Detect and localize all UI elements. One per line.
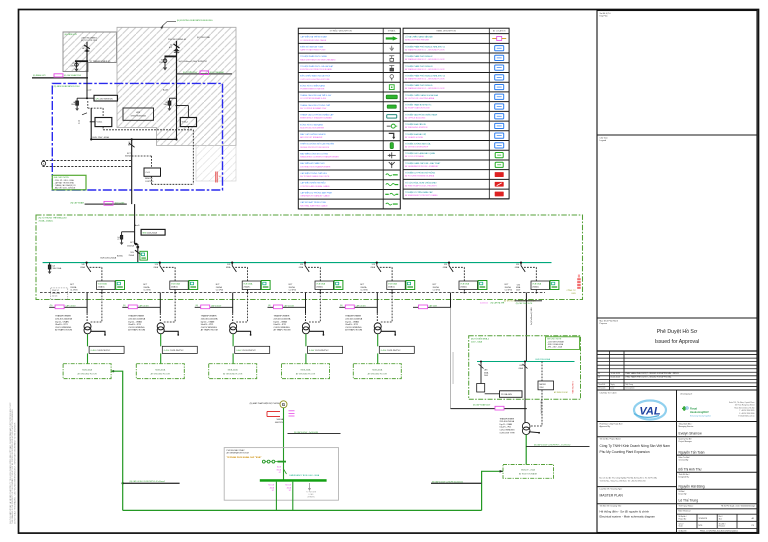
feeder F1 breaker cluster: [70, 262, 124, 294]
bus stub A (thick): [75, 60, 88, 62]
svg-text:AuxD: AuxD: [135, 224, 140, 227]
svg-text:(E) RANH GIỚI: (E) RANH GIỚI: [33, 74, 46, 77]
svg-text:AT2: AT2: [169, 46, 172, 49]
existing 22kV line to right: [177, 73, 232, 75]
svg-text:CONTROL: CONTROL: [145, 181, 154, 183]
svg-text:HaskoningDHV: HaskoningDHV: [690, 410, 709, 414]
wire: incoming A drop: [86, 42, 88, 61]
svg-text:LV COPPER BUSBAR 0.4kV: LV COPPER BUSBAR 0.4kV: [300, 97, 326, 100]
dashed link under L2: [102, 127, 104, 130]
svg-text:Electrical system - Main schem: Electrical system - Main schematic diagr…: [600, 515, 656, 519]
svg-text:CÁP 24kV: CÁP 24kV: [429, 305, 438, 308]
svg-text:CU/CU WINDING: CU/CU WINDING: [500, 430, 515, 432]
svg-text:SURGE PROTECTION DEVICE: SURGE PROTECTION DEVICE: [300, 147, 329, 149]
svg-text:500kVA: 500kVA: [277, 418, 284, 421]
svg-text:(N) MÁY PHÁT ĐIỆN DỰ PHÒNG: (N) MÁY PHÁT ĐIỆN DỰ PHÒNG: [250, 402, 281, 405]
svg-text:Revision:: Revision:: [719, 526, 726, 528]
svg-text:TỦ ĐIỆN CHIẾU SÁNG NGOÀI NHÀ: TỦ ĐIỆN CHIẾU SÁNG NGOÀI NHÀ: [405, 94, 438, 97]
future spare arrow: [309, 483, 311, 489]
transformer T5 feeder: [339, 290, 414, 379]
legend row R6: [403, 91, 509, 93]
legend row R17: [403, 198, 509, 200]
svg-text:Địa Chỉ Dự Án: Khu Công Nghiệp: Địa Chỉ Dự Án: Khu Công Nghiệp Phú Mỹ, Đ…: [600, 477, 658, 480]
svg-text:TỦ ĐIỆN PHÂN PHỐI CHÍNH: TỦ ĐIỆN PHÂN PHỐI CHÍNH: [300, 55, 327, 58]
svg-text:22kV - 630A: 22kV - 630A: [471, 340, 483, 343]
svg-text:AT EMERGENCY PRIORITY PANEL: AT EMERGENCY PRIORITY PANEL: [405, 194, 439, 197]
ground B: [163, 67, 167, 70]
svg-text:VT: VT: [117, 239, 119, 241]
ground A: [74, 69, 78, 72]
svg-text:PANEL DESCRIPTION: PANEL DESCRIPTION: [436, 30, 456, 33]
svg-text:MSB 22kV-2500A: MSB 22kV-2500A: [143, 231, 158, 234]
svg-text:(E) 22kV LINE: (E) 22kV LINE: [197, 37, 210, 39]
svg-text:Key Plan: Key Plan: [600, 16, 608, 18]
svg-text:(N) CÁP 0.6/1kV CU/XLPE/PVC -: (N) CÁP 0.6/1kV CU/XLPE/PVC - 4Cx95mm2: [534, 444, 570, 447]
svg-text:M1: M1: [128, 145, 131, 147]
svg-text:Designed By:: Designed By:: [679, 477, 690, 479]
svg-text:SAFETY EARTHING POINT: SAFETY EARTHING POINT: [300, 49, 326, 52]
svg-text:AT RMU ROOM: AT RMU ROOM: [554, 391, 568, 394]
metering note block: [51, 288, 68, 299]
surge arrester R: [170, 97, 177, 99]
svg-text:Ngày: Ngày: [611, 384, 615, 386]
legend row R16: [403, 188, 509, 190]
svg-text:AT WAREHOUSE NO.4 - GROUND FLO: AT WAREHOUSE NO.4 - GROUND FLOOR: [405, 77, 445, 80]
svg-text:Purpose: Purpose: [600, 323, 608, 325]
feeder F2 breaker cluster: [143, 262, 197, 294]
svg-text:TO TRANSFORMER (E): TO TRANSFORMER (E): [90, 60, 111, 63]
wire: ESB drop 2: [292, 482, 294, 511]
svg-text:AT LOCATION: AT LOCATION: [493, 30, 506, 33]
interconnect to MSB-2 transformer: [451, 408, 527, 410]
wire: MDB-09 to emergency network: [482, 471, 503, 510]
svg-text:TỦ ĐIỆN PHÂN PHỐI MDB-04 NHÀ K: TỦ ĐIỆN PHÂN PHỐI MDB-04 NHÀ KHO 04: [405, 74, 446, 77]
svg-text:- RMU 3 NGĂN 630A: - RMU 3 NGĂN 630A: [547, 343, 564, 346]
logos row: [597, 389, 757, 391]
transformer T1 feeder: [49, 290, 124, 379]
svg-text:AT WAREHOUSE NO.5 - GROUND FLO: AT WAREHOUSE NO.5 - GROUND FLOOR: [405, 87, 445, 90]
svg-text:05.05.2023: 05.05.2023: [611, 377, 620, 379]
svg-text:(N) CÁP NGẦM: (N) CÁP NGẦM: [71, 201, 85, 204]
svg-text:AT FIRE PUMP ROOM - PRIORITY: AT FIRE PUMP ROOM - PRIORITY: [405, 184, 437, 187]
svg-text:12.06.2023: 12.06.2023: [611, 373, 620, 375]
MSB-2 metering dashed: [541, 362, 543, 382]
legend section: [597, 317, 757, 319]
feeder F5 breaker cluster: [360, 262, 414, 294]
svg-text:SYNCHRONIZING: SYNCHRONIZING: [131, 115, 147, 117]
svg-text:CÁP ĐIỆN TRUNG THẾ 24kV: CÁP ĐIỆN TRUNG THẾ 24kV: [300, 172, 327, 175]
svg-text:AT FUTURE EXPANSION AREA: AT FUTURE EXPANSION AREA: [405, 175, 435, 178]
PT branch at MSB incoming: [122, 231, 135, 233]
svg-text:PHÁT HÀNH PHÊ DUYỆT - ISSUED F: PHÁT HÀNH PHÊ DUYỆT - ISSUED FOR APPROVA…: [626, 372, 680, 375]
svg-text:(N) CÁP 0.6/1kV - 2x(4Cx240): (N) CÁP 0.6/1kV - 2x(4Cx240): [294, 431, 319, 434]
legend row R12: [403, 149, 509, 151]
existing area B (hatched): [117, 27, 236, 145]
ground R: [168, 108, 172, 111]
svg-text:Tình Trạng / Status:: Tình Trạng / Status:: [679, 504, 694, 507]
legend row L16: [298, 188, 400, 190]
svg-text:E info@rhdhv.com.vn: E info@rhdhv.com.vn: [738, 415, 754, 418]
svg-text:2500A: 2500A: [129, 254, 135, 257]
approval row: [597, 421, 757, 423]
svg-text:(N) CÁP 24kV XLPE: (N) CÁP 24kV XLPE: [516, 302, 533, 305]
cable label on emergency riser (left): [122, 482, 180, 484]
svg-text:(N) TỦ ĐIỆN MSB-2: (N) TỦ ĐIỆN MSB-2: [471, 337, 490, 340]
svg-text:Phải Được Chấp Thuận Bởi /: Phải Được Chấp Thuận Bởi /: [600, 422, 624, 425]
svg-text:Loại Bản Vẽ / Drawing Type:: Loại Bản Vẽ / Drawing Type:: [600, 488, 623, 491]
svg-text:MCCB: MCCB: [268, 485, 274, 487]
legend row R4: [403, 71, 509, 73]
legend row L1: [298, 42, 400, 44]
generator G1: [280, 401, 287, 408]
wire: MSB-2 to transformer T6: [524, 399, 526, 422]
svg-text:Hồ Sơ Phê Duyệt - Draft / 2500: Hồ Sơ Phê Duyệt - Draft / 25000000mDesig…: [721, 504, 755, 507]
feeder F4 breaker cluster: [289, 262, 343, 294]
wire: from area A into switchboard: [86, 77, 88, 98]
svg-text:Issued for Approval: Issued for Approval: [655, 339, 699, 345]
svg-text:PHÁT HÀNH PHÊ DUYỆT - ISSUED F: PHÁT HÀNH PHÊ DUYỆT - ISSUED FOR APPROVA…: [626, 376, 672, 379]
svg-text:AT PUMP STATION ROOM: AT PUMP STATION ROOM: [405, 107, 430, 110]
wire: box L2 to feeder: [90, 121, 95, 123]
svg-text:OUTDOOR LIGHTING FIXTURE: OUTDOOR LIGHTING FIXTURE: [300, 79, 330, 81]
svg-text:Đỗ Thị Anh Thư: Đỗ Thị Anh Thư: [679, 466, 703, 471]
breaker 52G main: [135, 250, 141, 254]
legend row L14: [298, 169, 400, 171]
bus: dashed control bus: [40, 292, 545, 294]
svg-text:Kiểm Tra Bởi /: Kiểm Tra Bởi /: [679, 456, 691, 459]
wire: center feeder in blue box: [131, 139, 133, 204]
svg-text:(N) NEW SUBSTATION 22kV: (N) NEW SUBSTATION 22kV: [54, 85, 81, 88]
svg-text:AT WAREHOUSE NO.1 - GROUND FLO: AT WAREHOUSE NO.1 - GROUND FLOOR: [405, 48, 445, 51]
cable tag B (magenta): [200, 71, 209, 75]
svg-text:3x(1Cx50) 24kV: 3x(1Cx50) 24kV: [541, 399, 543, 413]
svg-text:AT WAREHOUSE NO.3 - GROUND FLO: AT WAREHOUSE NO.3 - GROUND FLOOR: [405, 68, 445, 71]
svg-text:NEUTRAL EARTHING CABLE: NEUTRAL EARTHING CABLE: [300, 204, 328, 207]
info grid: [677, 503, 758, 505]
svg-text:MDB-09 - 250A: MDB-09 - 250A: [521, 468, 535, 471]
svg-text:- 22kV SWITCHGEAR: - 22kV SWITCHGEAR: [547, 340, 565, 343]
svg-text:AT GENERATOR ROOM - STANDBY: AT GENERATOR ROOM - STANDBY: [405, 165, 439, 168]
svg-text:Nguyễn Hải Đăng: Nguyễn Hải Đăng: [679, 483, 705, 488]
incoming panel label box: [141, 229, 165, 235]
title block frame: [597, 11, 757, 533]
feeder F6 breaker cluster: [433, 262, 487, 294]
svg-text:Date: Date: [611, 387, 615, 390]
wire: T6 secondary (green): [525, 435, 527, 465]
CT circle B: [163, 59, 167, 63]
svg-text:Sơ Đồ Vị Trí: Sơ Đồ Vị Trí: [600, 12, 611, 15]
F6 cable label line: [413, 306, 451, 308]
svg-text:TỦ ĐIỆN XƯỞNG SẤY LÚA: TỦ ĐIỆN XƯỞNG SẤY LÚA: [405, 143, 431, 146]
svg-text:Sửa Đổi: Sửa Đổi: [599, 383, 606, 386]
CT circle A: [75, 63, 78, 66]
svg-text:(N) CÁP 0.6/1kV CU/XLPE 4Cx50m: (N) CÁP 0.6/1kV CU/XLPE 4Cx50mm2: [432, 480, 463, 483]
wire: PT branch B: [164, 56, 166, 67]
svg-text:BUS 22kV-2500A: BUS 22kV-2500A: [101, 257, 117, 260]
wire: generator output (green): [283, 408, 285, 480]
legend row L17: [298, 198, 400, 200]
bus: 22kV tie bus in substation: [91, 138, 176, 140]
svg-text:400A: 400A: [287, 486, 292, 489]
svg-text:12345678: 12345678: [699, 518, 707, 520]
legend row R10: [403, 130, 509, 132]
svg-text:P0: P0: [752, 525, 754, 527]
svg-text:2500/5A: 2500/5A: [127, 244, 134, 247]
svg-text:22kV VT: 22kV VT: [52, 290, 60, 292]
MSB-2 genset box: [500, 391, 523, 398]
svg-text:Enhancing Society Together: Enhancing Society Together: [690, 415, 711, 418]
svg-text:MÁY BIẾN ÁP PHÂN PHỐI: MÁY BIẾN ÁP PHÂN PHỐI: [300, 162, 325, 165]
svg-text:AT COLD STORAGE: AT COLD STORAGE: [405, 155, 424, 158]
legend row R3: [403, 62, 509, 64]
MSB-2 left outgoing breaker: [480, 361, 482, 363]
svg-text:Managing Director:: Managing Director:: [679, 425, 695, 428]
svg-text:TỦ ĐIỆN PHÂN PHỐI MDB-01 NHÀ K: TỦ ĐIỆN PHÂN PHỐI MDB-01 NHÀ KHO 01: [405, 45, 446, 48]
legend row R11: [403, 140, 509, 142]
svg-text:TRANSFORMER: TRANSFORMER: [500, 417, 515, 420]
red marker (scada): [215, 172, 217, 183]
svg-text:THANH CÁI ĐỒNG HẠ THẾ 0.4kV: THANH CÁI ĐỒNG HẠ THẾ 0.4kV: [300, 94, 332, 97]
svg-text:OUTDOOR TYPE: OUTDOOR TYPE: [500, 432, 516, 434]
svg-text:(E) ĐI TBA KHÁC: (E) ĐI TBA KHÁC: [210, 71, 225, 74]
faint hatched area: [196, 146, 236, 182]
note box (green border): [52, 175, 86, 190]
project row: [597, 436, 757, 438]
svg-text:VCB-2: VCB-2: [182, 122, 189, 124]
controller box U2: [144, 168, 161, 176]
svg-text:METER: METER: [540, 384, 547, 386]
transformer T3 feeder: [195, 290, 270, 379]
legend row L10: [298, 130, 400, 132]
svg-text:(N) CÁP 0.6/1kV CU/XLPE/PVC 4C: (N) CÁP 0.6/1kV CU/XLPE/PVC 4Cx50mm2: [130, 480, 165, 483]
svg-text:F +84 24 3934 3206: F +84 24 3934 3206: [739, 413, 754, 415]
svg-text:TỦ ĐIỆN KHẨN CẤP ESB - MÁY PHÁ: TỦ ĐIỆN KHẨN CẤP ESB - MÁY PHÁT: [405, 162, 441, 165]
MSB-2 main breaker down: [524, 361, 526, 363]
svg-text:SYMBOL: SYMBOL: [388, 31, 396, 33]
svg-text:TỦ ĐIỆN ƯU TIÊN KHẨN CẤP: TỦ ĐIỆN ƯU TIÊN KHẨN CẤP: [405, 191, 433, 194]
svg-text:22kV INCOMING: 22kV INCOMING: [81, 37, 97, 39]
svg-text:BUS: 22kV - 630A: BUS: 22kV - 630A: [93, 136, 110, 139]
svg-text:BUS A: BUS A: [117, 254, 123, 257]
wire: emergency distribution line: [123, 509, 482, 511]
junction main incoming: [135, 243, 138, 246]
legend row R5: [403, 81, 509, 83]
svg-text:GHI CHÚ / NOTE:: GHI CHÚ / NOTE:: [547, 338, 562, 341]
svg-text:CÁP ĐIỀU KHIỂN TÍN HIỆU: CÁP ĐIỀU KHIỂN TÍN HIỆU: [300, 182, 326, 185]
svg-text:MASTER PLAN: MASTER PLAN: [600, 494, 624, 498]
svg-text:Evelyn Sharrow: Evelyn Sharrow: [679, 431, 703, 435]
svg-text:Royal: Royal: [690, 407, 697, 411]
svg-text:22 KVA GEN: 22 KVA GEN: [501, 393, 512, 396]
legend row L7: [298, 101, 400, 103]
svg-text:TỦ ĐIỆN VĂN PHÒNG ĐIỀU HÀNH: TỦ ĐIỆN VĂN PHÒNG ĐIỀU HÀNH: [405, 113, 438, 116]
svg-text:(N) TỦ TRUNG THẾ MSB-22kV: (N) TỦ TRUNG THẾ MSB-22kV: [39, 217, 68, 220]
svg-text:(N) CÁP HẠ THẾ: (N) CÁP HẠ THẾ: [491, 302, 506, 305]
legend row L13: [298, 159, 400, 161]
wire to arrester: [77, 97, 94, 99]
svg-text:Tên Bản Vẽ / Drawing Title:: Tên Bản Vẽ / Drawing Title:: [600, 505, 622, 508]
transformer T4 feeder: [268, 290, 343, 379]
VAL logo: [634, 401, 666, 420]
feeder F6 downline (existing/gray): [450, 293, 452, 308]
svg-text:A1: A1: [752, 517, 754, 520]
svg-text:AuxR: AuxR: [163, 89, 168, 92]
svg-text:QF1 22kV SWGR (E): QF1 22kV SWGR (E): [96, 98, 113, 100]
svg-text:3x(1Cx240): 3x(1Cx240): [115, 202, 125, 204]
svg-text:Hoan Kiem District, Ha Noi: Hoan Kiem District, Ha Noi: [734, 406, 755, 409]
transformer T6: [522, 422, 530, 430]
svg-text:POWER ENERGY METER: POWER ENERGY METER: [300, 89, 325, 91]
legend row L5: [298, 81, 400, 83]
svg-text:TỦ ĐIỆN PHÂN PHỐI MDB-05: TỦ ĐIỆN PHÂN PHỐI MDB-05: [405, 84, 433, 87]
svg-text:Drawn By:: Drawn By:: [679, 494, 688, 496]
svg-text:MÁY CẮT KHÔNG KHÍ ACB: MÁY CẮT KHÔNG KHÍ ACB: [300, 133, 326, 136]
boundary: main switchboard room (green dash-dot): [36, 215, 583, 300]
svg-text:Revision: Revision: [599, 388, 606, 390]
legend row L3: [298, 62, 400, 64]
svg-text:SEE NOTE 5: SEE NOTE 5: [573, 380, 575, 393]
svg-text:PHÒNG MÁY PHÁT: PHÒNG MÁY PHÁT: [227, 449, 246, 452]
legend row R14: [403, 169, 509, 171]
legend row L15: [298, 179, 400, 181]
svg-text:52G: 52G: [130, 252, 134, 254]
svg-text:ĐỒNG HỒ ĐO ĐA NĂNG: ĐỒNG HỒ ĐO ĐA NĂNG: [300, 123, 323, 126]
svg-text:Description: Description: [626, 387, 635, 390]
svg-text:18kV 10kA: 18kV 10kA: [53, 267, 62, 270]
docking connector symbols: [262, 460, 265, 463]
svg-text:3x(1Cx240mm2) 24kV XLPE/PVC: 3x(1Cx240mm2) 24kV XLPE/PVC: [179, 61, 208, 63]
legend row L11: [298, 140, 400, 142]
bus: MSB-2 bus: [477, 361, 575, 363]
svg-text:(SPARE): (SPARE): [307, 496, 315, 499]
svg-text:Chủ Đầu Tư / Client:: Chủ Đầu Tư / Client:: [600, 391, 618, 394]
ground L: [75, 108, 79, 111]
svg-text:(E) TỪ LƯỚI 22kV: (E) TỪ LƯỚI 22kV: [81, 39, 98, 42]
svg-text:CÁP ĐIỆN HẠ THẾ ĐI NGẦM: CÁP ĐIỆN HẠ THẾ ĐI NGẦM: [300, 36, 327, 39]
svg-text:TỦ ĐIỆN KHO LẠNH BẢO QUẢN: TỦ ĐIỆN KHO LẠNH BẢO QUẢN: [405, 152, 435, 155]
svg-text:ĐIỂM NỐI ĐẤT AN TOÀN: ĐIỂM NỐI ĐẤT AN TOÀN: [300, 45, 323, 48]
svg-text:Nguyễn Tấn Toàn: Nguyễn Tấn Toàn: [679, 449, 705, 454]
svg-text:THANH CÁI ĐỒNG TRUNG THẾ: THANH CÁI ĐỒNG TRUNG THẾ: [300, 104, 330, 107]
power meter box (green): [140, 251, 148, 260]
svg-text:- SF6 - 24kV - 20kA: - SF6 - 24kV - 20kA: [547, 346, 563, 349]
legend row L12: [298, 149, 400, 151]
svg-text:TỦ ĐIỆN TRẠM BƠM NƯỚC: TỦ ĐIỆN TRẠM BƠM NƯỚC: [405, 104, 432, 107]
svg-text:GHI CHÚ / NOTE:: GHI CHÚ / NOTE:: [54, 176, 70, 179]
svg-text:AT DRYING WORKSHOP: AT DRYING WORKSHOP: [405, 146, 429, 149]
bus: main 22kV bus: [43, 262, 552, 264]
svg-text:AT GENERATOR ROOM: AT GENERATOR ROOM: [227, 452, 250, 455]
cable label on emergency riser (right): [431, 482, 482, 484]
svg-text:LV UNDERGROUND CABLE: LV UNDERGROUND CABLE: [300, 39, 327, 42]
dashed control loop: [103, 129, 193, 131]
svg-text:Vẽ Bởi /: Vẽ Bởi /: [679, 490, 686, 493]
legend row R15: [403, 178, 509, 180]
legend row L2: [298, 52, 400, 54]
svg-text:800A: 800A: [277, 468, 282, 471]
surge arrester L: [76, 98, 78, 108]
bus: ESB emergency bar: [260, 479, 327, 482]
svg-text:ĐÈN CHIẾU SÁNG NGOÀI TRỜI: ĐÈN CHIẾU SÁNG NGOÀI TRỜI: [300, 75, 330, 78]
svg-text:Approved By:: Approved By:: [600, 425, 611, 428]
svg-text:MEASURING CURRENT TRANSFORMER: MEASURING CURRENT TRANSFORMER: [300, 156, 339, 159]
dashed link under R2: [187, 127, 189, 130]
svg-text:MV COPPER BUSBAR 22kV: MV COPPER BUSBAR 22kV: [300, 107, 327, 110]
svg-text:TỦ PHÂN PHỐI KHẨN CẤP "ESB": TỦ PHÂN PHỐI KHẨN CẤP "ESB": [227, 456, 262, 459]
svg-text:400A: 400A: [270, 486, 275, 489]
svg-text:Size:: Size:: [719, 519, 723, 521]
svg-text:(E) TUYẾN 22kV: (E) TUYẾN 22kV: [183, 71, 198, 74]
svg-text:PM22_COUNTING-SLD-ELE-DWG-E-A1: PM22_COUNTING-SLD-ELE-DWG-E-A1001: [700, 529, 738, 532]
svg-text:Hệ thống điện - Sơ đồ nguyên l: Hệ thống điện - Sơ đồ nguyên lý chính: [600, 509, 650, 513]
legend table left: [298, 28, 400, 209]
svg-text:400/231V: 400/231V: [275, 422, 284, 424]
VCB box R2: [180, 118, 196, 127]
legend row R7: [403, 101, 509, 103]
bus stub B (thick): [165, 55, 177, 57]
wire: ESB drop 1: [275, 482, 277, 511]
svg-text:- BẢO VỆ: 50/51, 50N/51N: - BẢO VỆ: 50/51, 50N/51N: [54, 187, 76, 190]
legend row L9: [298, 120, 400, 122]
legend row R2: [403, 52, 509, 54]
boundary line with cable tag: [85, 203, 127, 205]
svg-text:Công Ty TNHH Kinh Doanh Nông S: Công Ty TNHH Kinh Doanh Nông Sản Việt Na…: [600, 444, 671, 448]
svg-text:4x25mm2: 4x25mm2: [480, 303, 488, 305]
boundary: new substation (blue dash-dot): [52, 83, 222, 190]
wire: MDB-01 to emergency network: [112, 370, 114, 372]
wire: area A drop to boundary: [86, 61, 88, 77]
svg-text:3x(1Cx50mm2) 24kV: 3x(1Cx50mm2) 24kV: [531, 307, 533, 325]
legend row L6: [298, 91, 400, 93]
svg-text:AT RICE STORAGE: AT RICE STORAGE: [519, 472, 538, 475]
svg-text:2500A - 25kA/1s: 2500A - 25kA/1s: [39, 220, 54, 223]
svg-text:Legend: Legend: [600, 140, 607, 142]
svg-text:Uk=4% - IP21: Uk=4% - IP21: [500, 427, 512, 429]
svg-text:600/5A: 600/5A: [125, 155, 131, 158]
svg-text:(E) CÁP NGẦM 22kV: (E) CÁP NGẦM 22kV: [64, 74, 82, 77]
svg-text:Quản Lý Dự Án /: Quản Lý Dự Án /: [679, 438, 693, 441]
cable tag A (magenta): [54, 74, 63, 77]
svg-text:CÁP NỐI ĐẤT TRUNG TÍNH: CÁP NỐI ĐẤT TRUNG TÍNH: [300, 201, 326, 204]
G1 cable label line: [288, 433, 341, 435]
svg-text:VCB-1: VCB-1: [97, 122, 104, 124]
G1 red marks: [267, 411, 280, 413]
svg-text:EVN: EVN: [572, 293, 577, 295]
svg-text:LỘ RA CHIẾU SÁNG SÂN BÃI: LỘ RA CHIẾU SÁNG SÂN BÃI: [405, 36, 433, 39]
svg-text:AT OFFICE BUILDING: AT OFFICE BUILDING: [405, 116, 426, 119]
feeder F7 breaker cluster: [505, 262, 559, 294]
svg-text:AT1: AT1: [82, 47, 85, 50]
svg-text:G: G: [282, 402, 286, 407]
boundary: secondary switchboard MSB-2 (green dash-dot): [469, 336, 581, 400]
svg-text:Scale:: Scale:: [679, 526, 684, 528]
svg-text:Dyn11 - ONAN: Dyn11 - ONAN: [500, 423, 513, 426]
separation line under box A: [32, 77, 88, 79]
enclosure: generator room (gray): [224, 448, 338, 501]
wire: left feeder down to LV bus: [90, 108, 92, 139]
svg-text:Tỉnh Bà Rịa - Vũng Tàu, Việt N: Tỉnh Bà Rịa - Vũng Tàu, Việt Nam. Tel: +…: [600, 479, 646, 482]
ATS synchronizing box U1: [123, 108, 154, 120]
svg-text:MCCB: MCCB: [285, 485, 291, 487]
surge arrester SA1: [49, 263, 51, 272]
svg-text:MAIN DISTRIBUTION SWITCHBOARD: MAIN DISTRIBUTION SWITCHBOARD: [300, 58, 336, 61]
svg-text:(N) CÁP NGẦM 24kV: (N) CÁP NGẦM 24kV: [473, 404, 491, 407]
svg-text:TỦ ĐIỆN NHÀ BẢO VỆ: TỦ ĐIỆN NHÀ BẢO VỆ: [405, 133, 426, 136]
svg-text:109 Tran Hung Dao Street: 109 Tran Hung Dao Street: [735, 404, 755, 407]
wire: main to R2: [176, 105, 178, 107]
svg-text:AT GUARD HOUSE: AT GUARD HOUSE: [405, 136, 423, 139]
note red vertical: [577, 278, 581, 289]
